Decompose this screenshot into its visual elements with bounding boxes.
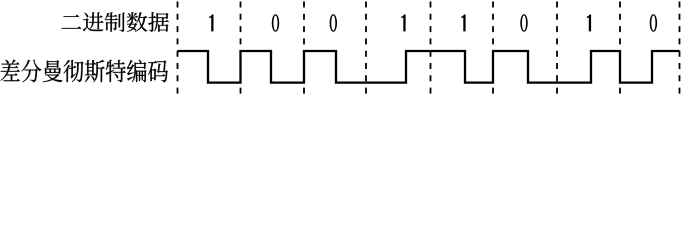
bit value digit 0 (bit 2) <box>272 14 280 32</box>
bit boundary dashed line 3 <box>303 2 305 96</box>
bit value digit 0 (bit 8) <box>650 14 658 32</box>
label: binary data (二进制数据) <box>62 12 169 31</box>
label: differential Manchester encoding (差分曼彻斯特编码) <box>1 60 168 83</box>
bit boundary dashed line 2 <box>240 2 242 96</box>
bit value digit 1 (bit 4) <box>401 15 405 32</box>
bit boundary dashed line 9 <box>679 2 681 96</box>
bit boundary dashed line 1 <box>177 2 179 96</box>
bit value digit 0 (bit 3) <box>330 14 338 32</box>
bit value digit 0 (bit 6) <box>520 14 528 32</box>
bit boundary dashed line 7 <box>556 2 558 96</box>
bit boundary dashed line 5 <box>430 2 432 96</box>
bit boundary dashed line 4 <box>365 2 367 96</box>
bit boundary dashed line 6 <box>492 2 494 96</box>
bit value digit 1 (bit 5) <box>461 15 465 32</box>
bit value digit 1 (bit 7) <box>587 15 591 32</box>
bit value digit 1 (bit 1) <box>209 15 213 32</box>
bit boundary dashed line 8 <box>619 2 621 96</box>
encoded waveform <box>178 51 680 83</box>
